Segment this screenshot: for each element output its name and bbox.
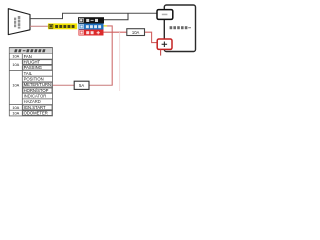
battery label バッテリー (simulated) [170, 26, 191, 29]
svg-text:10A: 10A [12, 82, 19, 87]
label: black wire (黒 アース) [78, 17, 104, 23]
svg-text:HAZARD: HAZARD [24, 99, 41, 104]
svg-text:PASSING: PASSING [24, 65, 42, 70]
table header ヒューズボックス (simulated) [10, 48, 52, 53]
svg-text:10A: 10A [12, 54, 19, 59]
svg-text:10A: 10A [132, 30, 140, 35]
battery minus terminal box [157, 10, 173, 20]
wire from ground label to black wire [104, 13, 128, 19]
wire black: device to battery minus [30, 13, 157, 18]
svg-text:ODOMETER: ODOMETER [24, 110, 48, 115]
svg-text:HORN/STOP: HORN/STOP [24, 88, 49, 93]
connector J1 (accessory device, trapezoid) [8, 9, 30, 35]
fuse box table [9, 48, 52, 116]
wire red: bottom bus from fuse table through 5A fuse [53, 84, 75, 86]
svg-text:10A: 10A [12, 110, 19, 115]
svg-text:FAN: FAN [24, 54, 32, 59]
svg-text:H/LIGHT: H/LIGHT [24, 60, 41, 65]
wire red: device to yellow label [30, 25, 48, 27]
svg-text:IGN.START: IGN.START [24, 105, 46, 110]
label: red (電源 +) [79, 30, 104, 36]
wire yellow stub from blue label [104, 25, 108, 27]
svg-text:INDICATOR: INDICATOR [24, 93, 47, 98]
fuse F1 10A (battery side) [127, 29, 145, 36]
battery plus terminal box [157, 39, 172, 49]
svg-text:POSITION: POSITION [24, 77, 44, 82]
connector J1 rotated label text (simulated kana) [14, 16, 20, 29]
svg-text:TAIL: TAIL [24, 71, 33, 76]
wire red: down from yellow stub to bottom bus [107, 26, 112, 85]
svg-text:METER/TURN: METER/TURN [24, 82, 51, 87]
label: blue (メイン電源) [79, 24, 104, 30]
wire red stub below plus terminal [160, 50, 162, 56]
wire red: branch down to bottom bus [119, 32, 121, 91]
table circuit names [24, 54, 51, 116]
highlighted circuit boxes [23, 60, 52, 116]
battery B1 [164, 5, 195, 52]
fuse F2 5A (tap fuse) [74, 81, 89, 89]
svg-text:10A: 10A [12, 105, 19, 110]
svg-text:10A: 10A [12, 62, 19, 67]
svg-text:5A: 5A [79, 83, 84, 88]
label: yellow wire (黄 電源線) [48, 23, 77, 29]
table left column fuse ratings [12, 54, 19, 116]
wire red: red label to 10A fuse and + terminal [104, 31, 127, 33]
